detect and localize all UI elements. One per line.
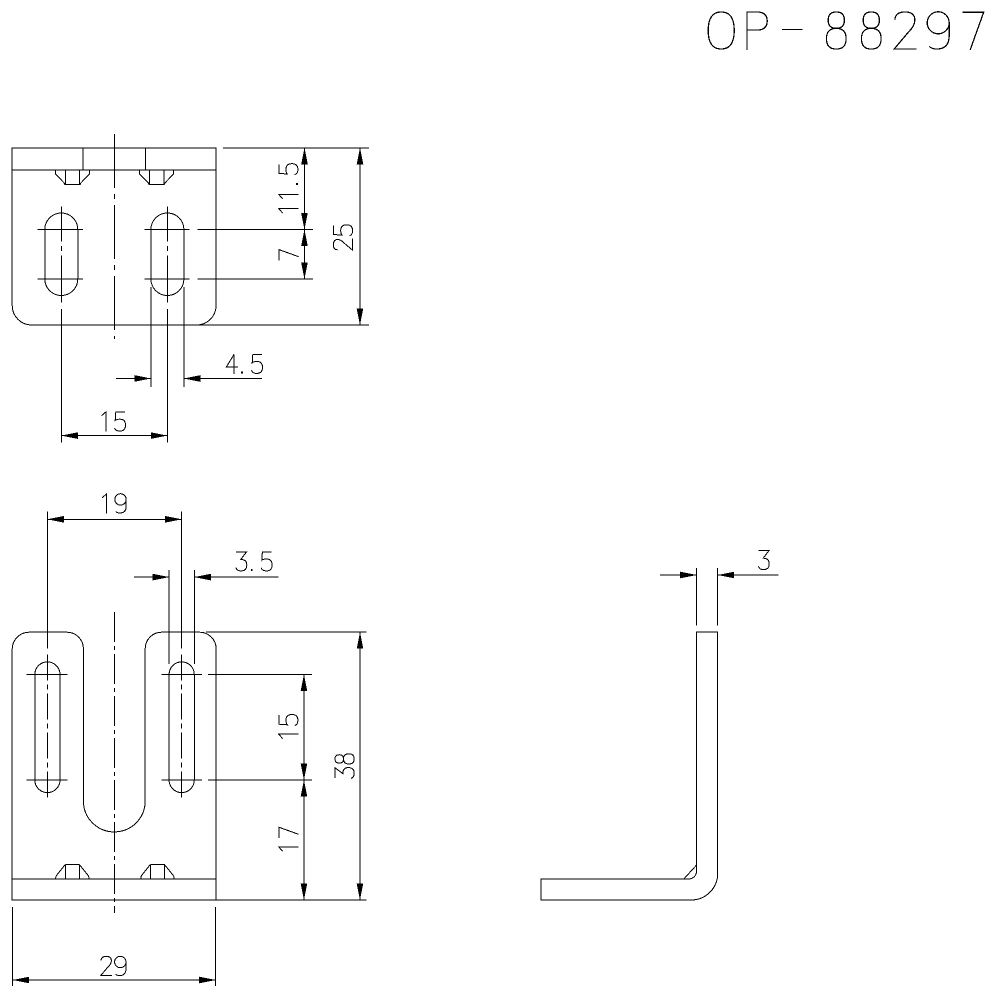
top view: slot 2 center marks xyxy=(144,229,189,231)
top view: slot 2 centerline xyxy=(166,206,168,442)
dimension 19 line xyxy=(47,518,181,520)
top view: U-slot edge (left) xyxy=(82,148,84,170)
dimension 4.5 extension lines xyxy=(150,287,152,387)
front view: slot 1 centerline xyxy=(46,512,48,649)
top view: extension line slot top (y=229.5) xyxy=(198,229,314,231)
dimension text 3 xyxy=(758,551,769,570)
dimension text 25 xyxy=(333,225,352,250)
top view: screw head 2 xyxy=(140,170,149,185)
front view: screw head 2 xyxy=(150,864,164,866)
front view: slot 2 center marks xyxy=(162,674,203,676)
top view: slot 2 (obround) xyxy=(151,213,184,296)
top view: bend fold line xyxy=(12,169,216,171)
dimension text 19 xyxy=(102,494,126,514)
side view: L profile outline xyxy=(541,632,718,900)
top view: bracket outline (plan) xyxy=(12,148,216,325)
dimension 7 line xyxy=(304,230,306,280)
front view: bracket outline with U slot xyxy=(12,632,216,900)
dimension 17 line xyxy=(303,780,305,900)
front view: slot 2 center marks extension xyxy=(208,674,312,676)
dimension text 7 xyxy=(279,250,299,261)
dimension text 3.5 xyxy=(236,552,272,571)
top view: U-slot edge (right) xyxy=(144,148,146,170)
dimension 29 line xyxy=(13,979,216,981)
front view: slot 2 centerline xyxy=(181,512,183,649)
dimension 38 extension lines xyxy=(206,631,367,633)
side view: bend tangent line xyxy=(684,865,696,879)
dimension 3.5 extension lines xyxy=(168,570,170,664)
title text OP-88297 xyxy=(708,12,983,50)
dimension 38 line xyxy=(359,632,361,900)
dimension text 29 xyxy=(101,956,126,975)
dimension text 4.5 xyxy=(226,354,262,374)
dimension 29 extension lines xyxy=(12,907,14,986)
top view: slot 1 centerline xyxy=(60,206,62,442)
front view: bracket centerline xyxy=(113,612,115,913)
dimension 3 lines + arrows xyxy=(660,574,697,576)
top view: slot 1 (obround) xyxy=(45,213,78,296)
dimension 25 line xyxy=(359,148,361,325)
dimension text 38 xyxy=(335,754,354,779)
dimension 3 extension lines xyxy=(696,568,698,626)
top view: bracket centerline xyxy=(113,134,115,339)
dimension 3.5 lines + arrows xyxy=(134,576,169,578)
dimension text 15 (front view) xyxy=(279,715,299,739)
top view: extension line slot bottom (y=279) xyxy=(198,278,314,280)
dimension 15 (top view) line xyxy=(61,435,167,437)
top view: slot 1 center marks xyxy=(38,229,83,231)
dimension text 11.5 xyxy=(279,164,299,213)
front view: slot 1 (obround) xyxy=(35,662,60,793)
dimension 4.5 lines + arrows xyxy=(116,378,151,380)
top view: extension line top (y=148) xyxy=(223,147,369,149)
dimension text 17 xyxy=(279,827,299,851)
front view: bend fold line xyxy=(12,878,216,880)
front view: screw head 1 xyxy=(65,864,79,866)
dimension text 15 (top view) xyxy=(101,412,125,432)
dimension 15 (front) line xyxy=(303,675,305,781)
front view: slot 2 (obround) xyxy=(169,662,194,793)
front view: slot 1 center marks xyxy=(26,674,67,676)
top view: screw head 1 xyxy=(55,170,64,185)
dimension 11.5 line xyxy=(304,148,306,230)
top view: extension line bottom (y=325) xyxy=(197,324,369,326)
